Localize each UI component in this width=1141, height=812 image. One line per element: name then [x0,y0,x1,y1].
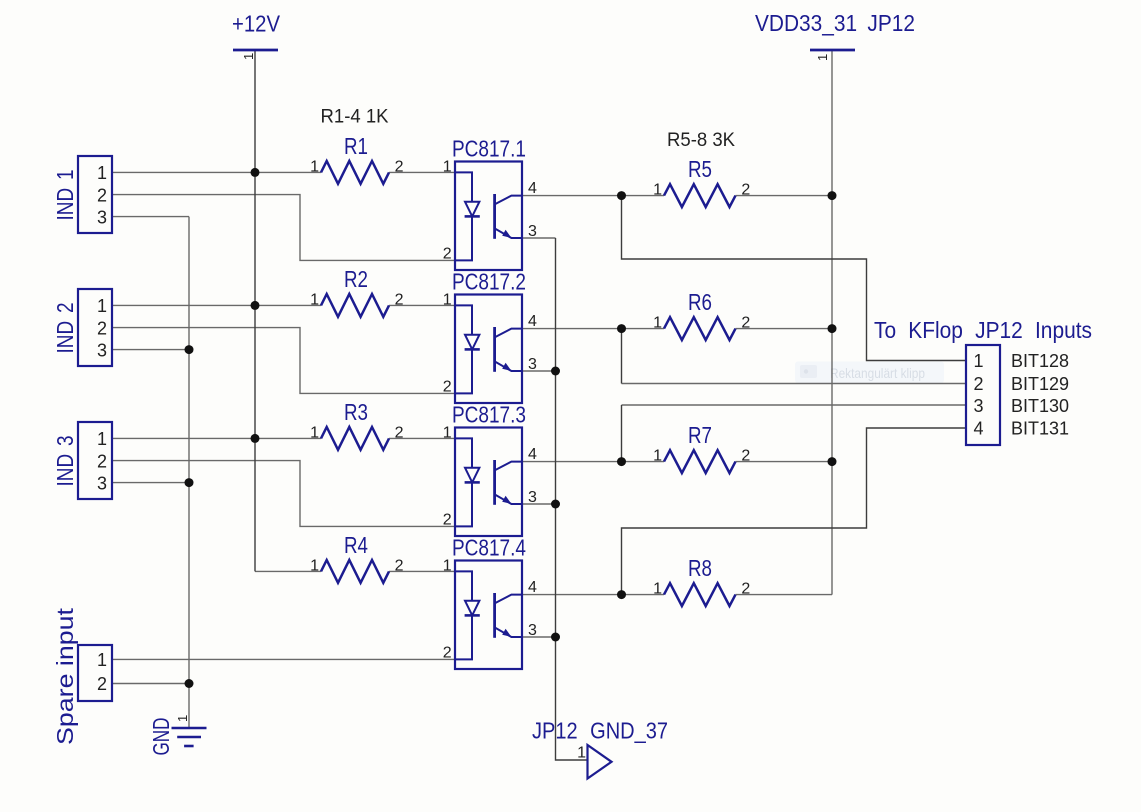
svg-text:1: 1 [310,291,319,308]
svg-text:BIT131: BIT131 [1011,418,1069,438]
svg-text:BIT130: BIT130 [1011,396,1069,416]
svg-text:2: 2 [973,374,983,394]
svg-text:1: 1 [310,424,319,441]
svg-text:4: 4 [973,419,983,439]
svg-text:+12V: +12V [232,11,281,37]
svg-text:PC817.3: PC817.3 [452,402,526,428]
svg-text:1: 1 [577,745,586,762]
svg-text:IND 3: IND 3 [52,436,78,487]
svg-text:1: 1 [653,581,662,598]
svg-text:1: 1 [310,158,319,175]
svg-text:Spare input: Spare input [52,607,78,745]
svg-text:R5-8 3K: R5-8 3K [667,129,735,151]
svg-text:R5: R5 [688,156,712,182]
svg-text:R7: R7 [688,422,712,448]
svg-text:1: 1 [310,557,319,574]
svg-text:R1-4 1K: R1-4 1K [321,105,389,127]
svg-text:PC817.1: PC817.1 [452,136,526,162]
svg-text:2: 2 [741,581,750,598]
svg-text:2: 2 [395,424,404,441]
svg-text:To KFlop JP12 Inputs: To KFlop JP12 Inputs [874,317,1092,343]
svg-text:2: 2 [741,448,750,465]
svg-text:PC817.4: PC817.4 [452,535,526,561]
svg-text:R1: R1 [344,133,368,159]
svg-text:R6: R6 [688,289,712,315]
svg-text:JP12 GND_37: JP12 GND_37 [532,718,668,744]
svg-text:2: 2 [395,557,404,574]
svg-text:1: 1 [973,351,983,371]
svg-text:R2: R2 [344,266,368,292]
svg-text:BIT129: BIT129 [1011,374,1069,394]
svg-text:1: 1 [815,54,830,61]
svg-text:IND 1: IND 1 [52,170,78,221]
svg-text:Rektangulärt klipp: Rektangulärt klipp [830,365,925,381]
svg-text:IND 2: IND 2 [52,303,78,354]
svg-text:1: 1 [241,53,256,60]
svg-text:2: 2 [97,674,107,694]
svg-text:GND: GND [148,718,174,756]
svg-text:2: 2 [395,158,404,175]
svg-text:2: 2 [741,182,750,199]
svg-text:R4: R4 [344,532,368,558]
svg-text:2: 2 [741,315,750,332]
svg-text:R3: R3 [344,399,368,425]
svg-text:1: 1 [653,182,662,199]
svg-text:VDD33_31 JP12: VDD33_31 JP12 [755,10,915,36]
svg-text:1: 1 [653,448,662,465]
svg-text:BIT128: BIT128 [1011,351,1069,371]
svg-text:PC817.2: PC817.2 [452,269,526,295]
svg-text:R8: R8 [688,555,712,581]
svg-text:1: 1 [97,650,107,670]
svg-text:1: 1 [175,715,190,722]
svg-text:1: 1 [653,315,662,332]
svg-text:2: 2 [395,291,404,308]
svg-text:3: 3 [973,396,983,416]
